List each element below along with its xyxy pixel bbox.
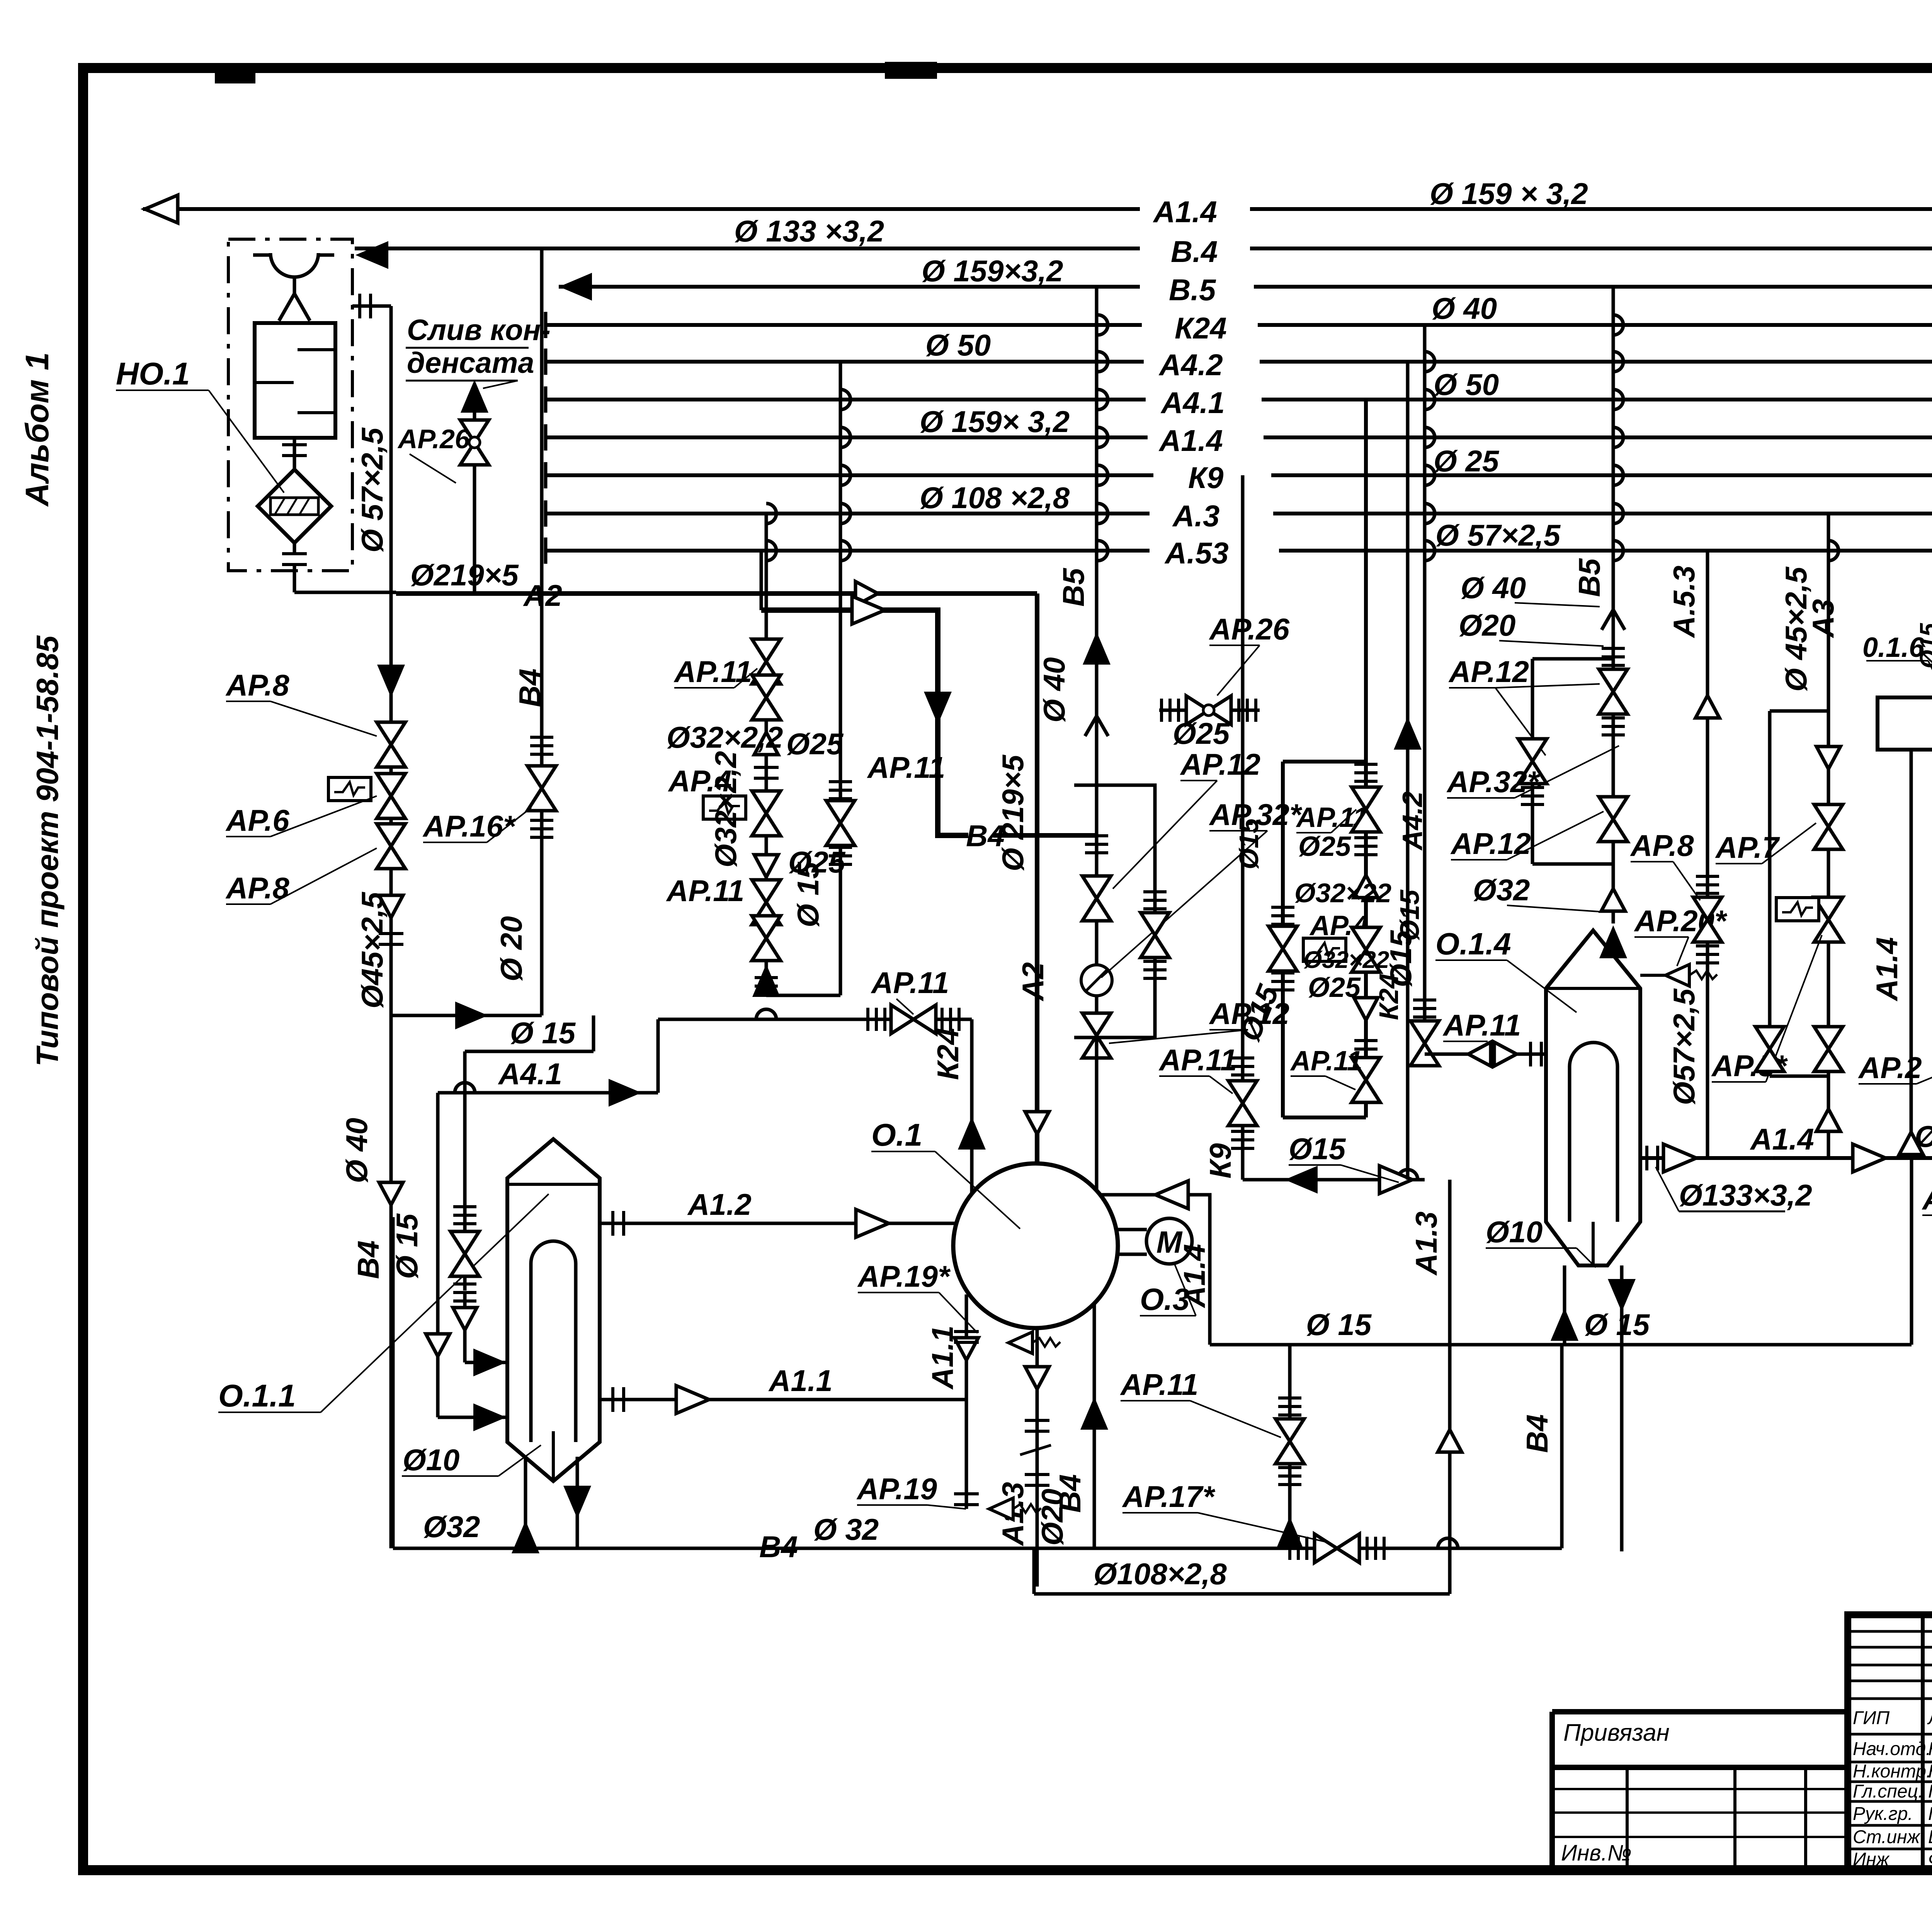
- svg-text:В5: В5: [1572, 558, 1606, 597]
- check valve down on А3 riser: [1816, 747, 1840, 769]
- valve АР.12 lower: [1082, 1013, 1111, 1058]
- wire: [298, 411, 335, 414]
- svg-text:Типовой проект 904-1-58.85: Типовой проект 904-1-58.85: [30, 635, 65, 1066]
- wire bus К24 y=841: [1258, 323, 1932, 327]
- leader line: [406, 380, 518, 382]
- check valve on А.5.3 riser: [1696, 696, 1719, 718]
- valve АР.12 upper block2: [1599, 669, 1628, 714]
- start tick of bus y=1329: [545, 500, 546, 527]
- svg-text:Ø 15: Ø 15: [1584, 1308, 1650, 1342]
- leader АР.8: [270, 701, 377, 736]
- leader line: [1449, 687, 1495, 689]
- leader line: [1289, 1164, 1341, 1166]
- svg-text:Ø 50: Ø 50: [925, 328, 991, 362]
- svg-text:Шась: Шась: [1928, 1827, 1932, 1847]
- arrow into vessel О.1.4: [1600, 927, 1626, 957]
- leader line: [1341, 1165, 1399, 1182]
- wire path: [258, 469, 331, 543]
- wire Ø108×2,8 bottom: [1034, 1592, 1450, 1596]
- open arrow on А1.2: [856, 1209, 889, 1237]
- svg-text:О.1: О.1: [871, 1117, 922, 1153]
- svg-text:К9: К9: [1188, 461, 1224, 495]
- leader line: [1677, 937, 1689, 966]
- wire drop x=4947 to Ф15 line: [1910, 1158, 1913, 1345]
- leader line: [1217, 645, 1260, 696]
- svg-text:ГИП: ГИП: [1853, 1708, 1889, 1728]
- leader line: [423, 842, 487, 843]
- open chevron on В5 riser block2: [1602, 610, 1625, 630]
- wire path: [840, 541, 850, 561]
- wire left riser lower part: [391, 1217, 395, 1548]
- svg-text:Ø25: Ø25: [1173, 716, 1230, 750]
- leader line: [857, 1504, 927, 1506]
- wire: [352, 304, 391, 308]
- valve АР.8 on А.5.3 riser: [1693, 897, 1722, 942]
- svg-text:А1.3: А1.3: [1409, 1211, 1443, 1276]
- arrow up at bottom: [1277, 1519, 1303, 1549]
- svg-text:Ø32×2,2: Ø32×2,2: [667, 720, 783, 754]
- svg-text:Коган: Коган: [1928, 1739, 1932, 1759]
- leader line: [1331, 810, 1356, 833]
- leader line: [1673, 862, 1700, 900]
- arrow up on В5 riser: [1084, 634, 1109, 664]
- open arrow on А1.1: [676, 1386, 709, 1413]
- wire bus А1.4 y=541: [1250, 207, 1932, 211]
- inner tube of О.1.4: [1570, 1043, 1617, 1222]
- leader line: [1140, 1315, 1196, 1316]
- flange: [1085, 836, 1108, 853]
- leader Ø133: [1656, 1167, 1679, 1211]
- wire path: [1074, 785, 1155, 1037]
- wire: [1116, 1228, 1147, 1231]
- svg-text:Ø 50: Ø 50: [1434, 367, 1499, 401]
- svg-text:Ø 219×5: Ø 219×5: [996, 754, 1030, 871]
- wire В5/Ø40/Ø20 riser: [1095, 287, 1099, 1180]
- svg-text:А1.4: А1.4: [1158, 423, 1223, 457]
- valve АР.11 lower pair bottom: [752, 916, 781, 961]
- valve АР.7: [1814, 804, 1843, 849]
- leader line: [1631, 861, 1673, 862]
- check valve on А2 line: [855, 582, 878, 605]
- wire В4 riser to compressor: [1093, 1303, 1096, 1548]
- valve АР.32* on bypass block2: [1518, 739, 1547, 784]
- wire: [576, 1457, 579, 1548]
- wire bus В.5 y=742: [559, 285, 1140, 289]
- svg-text:Ø10: Ø10: [403, 1443, 459, 1477]
- svg-text:А.53: А.53: [1164, 536, 1229, 570]
- leader line: [1447, 797, 1515, 799]
- leader: [1443, 1041, 1488, 1042]
- wire В5 riser block2: [1612, 287, 1615, 923]
- svg-text:Ø 15: Ø 15: [791, 861, 825, 927]
- svg-text:К24: К24: [931, 1028, 965, 1080]
- wire К24 drop to compressor: [970, 1019, 974, 1194]
- flange: [379, 934, 403, 944]
- leader АР.11: [734, 668, 757, 688]
- привязан row y=4691: [1552, 1811, 1848, 1814]
- flange: [453, 1207, 476, 1224]
- svg-text:А3: А3: [1806, 599, 1840, 638]
- arrow up on К24 drop: [959, 1119, 985, 1149]
- jog to А.53 bus: [760, 551, 763, 610]
- valve АР.8 upper: [377, 722, 405, 767]
- wire path: [507, 1183, 600, 1186]
- wire filter outlet down: [293, 565, 296, 592]
- svg-text:АР.23*: АР.23*: [1922, 1182, 1932, 1216]
- wire А2 header Ø219×5: [396, 591, 1037, 596]
- flange: [954, 1494, 979, 1505]
- valve actuator: [1303, 938, 1346, 961]
- leader О.1: [935, 1151, 1020, 1229]
- flange: [1231, 1131, 1254, 1148]
- wire path: [1848, 1615, 1932, 1870]
- svg-text:А1.4: А1.4: [1928, 572, 1932, 636]
- wire Ф15 header y=3053: [1243, 1178, 1425, 1182]
- wire А1.3 riser x=3752: [1448, 1180, 1452, 1594]
- leader line: [1296, 832, 1331, 833]
- svg-text:Григорьян: Григорьян: [1928, 1804, 1932, 1824]
- flange: [1143, 961, 1167, 978]
- open arrow left on А1.4 stub: [1155, 1181, 1188, 1209]
- wire path: [766, 503, 776, 524]
- leader line: [1507, 811, 1604, 860]
- stamp row y=4222: [1848, 1630, 1932, 1633]
- leader line: [226, 701, 270, 702]
- wire path: [1098, 541, 1108, 561]
- flow arrow up on drop x=1983: [753, 966, 779, 996]
- leader АР.12: [1113, 781, 1217, 889]
- compressor О.1: [953, 1163, 1118, 1328]
- svg-text:Ø32×2,2: Ø32×2,2: [709, 751, 743, 867]
- svg-text:Нач.отд.: Нач.отд.: [1853, 1739, 1931, 1759]
- leader line: [116, 389, 209, 391]
- wire bus В.5 y=742: [1254, 285, 1932, 289]
- flange: [1521, 787, 1544, 804]
- start tick of bus y=936: [545, 349, 546, 375]
- wire: [465, 1361, 507, 1364]
- leader line: [1209, 645, 1260, 646]
- wire drop x=3535: [1364, 400, 1368, 1117]
- stamp row y=4611: [1848, 1781, 1932, 1783]
- wire path: [840, 389, 850, 410]
- wire bus А1.4 y=541: [143, 207, 1140, 211]
- svg-text:АР.16*: АР.16*: [422, 809, 516, 843]
- wire path: [1425, 541, 1435, 561]
- leader line: [1209, 830, 1267, 832]
- wire А1.1 riser under compressor: [965, 1294, 968, 1509]
- check valve: [426, 1334, 450, 1356]
- wire А1.4 header y=2997: [1640, 1156, 1932, 1160]
- wire path: [756, 1009, 776, 1019]
- svg-text:Н.контр.: Н.контр.: [1853, 1761, 1931, 1782]
- svg-text:Ø15: Ø15: [1234, 818, 1264, 869]
- leader to drain arrow: [483, 381, 518, 388]
- wire: [463, 1051, 467, 1291]
- leader line: [858, 1292, 939, 1293]
- wire path: [275, 498, 309, 514]
- wire path: [1613, 465, 1623, 485]
- flange: [1231, 1058, 1254, 1075]
- wire jog: [592, 1015, 595, 1051]
- svg-text:АР.11: АР.11: [867, 750, 945, 784]
- wire В4 heavy bypass: [761, 610, 968, 835]
- svg-text:Ø32: Ø32: [423, 1510, 480, 1544]
- svg-text:Инв.№: Инв.№: [1561, 1840, 1632, 1866]
- valve on block2 bypass: [1269, 926, 1297, 971]
- flange: [1271, 973, 1294, 990]
- valve АР.12 on bypass side: [1141, 913, 1169, 957]
- start tick of bus y=1132: [545, 424, 546, 451]
- svg-text:Ø 32: Ø 32: [813, 1512, 879, 1546]
- valve АР.4 with actuator block2: [1352, 927, 1380, 972]
- wire drain riser: [473, 404, 476, 594]
- wire АР.11 drop x=3338: [1288, 1345, 1292, 1548]
- svg-text:А1.4: А1.4: [1153, 195, 1217, 229]
- check valve: [954, 1338, 978, 1360]
- wire: [1116, 1253, 1147, 1256]
- wire А1.3 drain from compressor: [1036, 1328, 1039, 1587]
- wire bus А.3 y=1329: [546, 512, 1150, 515]
- leader line: [1577, 1248, 1596, 1267]
- wire К9 riser x=3216: [1241, 475, 1245, 1180]
- valve АР.11 on К24 drop: [1410, 1021, 1439, 1066]
- wire path: [1546, 930, 1640, 1265]
- leader line: [226, 903, 270, 905]
- leader АР.16*: [487, 808, 531, 842]
- flange: [1602, 648, 1625, 665]
- svg-text:Ст.инж: Ст.инж: [1853, 1827, 1921, 1847]
- wire: [463, 1293, 467, 1362]
- leader line: [1325, 1076, 1355, 1090]
- svg-text:АР.8: АР.8: [225, 668, 289, 702]
- svg-text:В4: В4: [759, 1530, 798, 1564]
- wire: [389, 306, 393, 594]
- svg-text:Ø 40: Ø 40: [1461, 571, 1526, 605]
- arrow down on left riser: [378, 665, 404, 696]
- leader НО.1: [209, 390, 284, 493]
- valve АР.8 lower: [377, 824, 405, 869]
- stamp row y=4488: [1848, 1733, 1932, 1736]
- flange: [1162, 699, 1179, 722]
- svg-text:Ø25: Ø25: [1298, 831, 1351, 862]
- wire А4.1 riser to К24 line: [656, 1019, 660, 1093]
- flange: [1025, 1475, 1049, 1485]
- wire path: [1613, 389, 1623, 410]
- flange: [1278, 1398, 1301, 1415]
- svg-text:В.5: В.5: [1169, 273, 1216, 307]
- svg-text:Ø32×22: Ø32×22: [1303, 947, 1389, 973]
- valve АР.11 horizontal: [891, 1005, 936, 1034]
- leader line: [1209, 1029, 1248, 1031]
- wire А3 riser x=4732: [1827, 514, 1830, 1158]
- arrow up: [1082, 1399, 1107, 1429]
- wire bus А.53 y=1425: [546, 549, 1150, 553]
- leader line: [1507, 905, 1604, 912]
- valve АР.16*: [527, 766, 556, 811]
- flange: [942, 1008, 959, 1031]
- leader line: [1712, 1081, 1766, 1083]
- svg-text:А4.1: А4.1: [498, 1057, 562, 1091]
- привязан column x=4673: [1804, 1767, 1807, 1870]
- wire path: [1425, 465, 1435, 485]
- svg-text:АР.11: АР.11: [1158, 1043, 1237, 1077]
- привязан column x=4211: [1626, 1767, 1629, 1870]
- svg-text:АР.17*: АР.17*: [1122, 1480, 1216, 1514]
- flange: [829, 782, 852, 799]
- leader line: [1451, 859, 1507, 861]
- wire path: [1098, 315, 1108, 335]
- wire АР.26 drain stub: [1159, 709, 1260, 712]
- arrow up condensate drain: [462, 382, 487, 412]
- relief valve АР.19: [989, 1498, 1041, 1520]
- leader line: [406, 347, 529, 349]
- open arrow on А1.4 header: [1663, 1144, 1696, 1172]
- привязан column x=4490: [1733, 1767, 1736, 1870]
- arrow up on left leg: [513, 1522, 538, 1553]
- leader АР.32*: [1101, 831, 1267, 978]
- wire path: [1828, 541, 1838, 561]
- check valve above vessel: [1601, 889, 1625, 911]
- valve АР.11 lower: [1276, 1419, 1304, 1464]
- open arrow on В4 bypass top: [852, 596, 885, 624]
- scan mark top middle: [885, 62, 937, 79]
- flange: [868, 1008, 885, 1031]
- valve АР.17*: [1315, 1534, 1359, 1563]
- wire path: [840, 503, 850, 524]
- svg-text:Ø32: Ø32: [1473, 873, 1530, 907]
- check valve: [754, 732, 778, 755]
- wire А1.3 jog down: [1032, 1548, 1036, 1594]
- leader line: [1716, 863, 1762, 864]
- svg-text:АР.11: АР.11: [871, 966, 949, 1000]
- wire bottom tie 1983-2175: [766, 994, 840, 997]
- svg-text:АР.11: АР.11: [1120, 1367, 1198, 1401]
- svg-text:О.1.4: О.1.4: [1435, 927, 1511, 961]
- flange: [1025, 1420, 1049, 1431]
- svg-text:Инж: Инж: [1853, 1849, 1890, 1870]
- check valve: [1354, 875, 1378, 898]
- flange: [1531, 1042, 1541, 1066]
- leader АР.6: [270, 796, 377, 837]
- svg-text:В4: В4: [351, 1240, 385, 1279]
- check valve down block2: [1354, 998, 1378, 1020]
- svg-text:Ø 20: Ø 20: [494, 916, 528, 981]
- wire К24 drop x=3687: [1423, 325, 1427, 1054]
- svg-text:Ø45×2,5: Ø45×2,5: [355, 891, 389, 1009]
- svg-text:денсата: денсата: [407, 347, 534, 379]
- svg-text:Преснов: Преснов: [1928, 1781, 1932, 1802]
- relief valve АР.20*: [1665, 964, 1717, 986]
- wire left main riser В4/Ø45 x=1012: [389, 594, 393, 1548]
- valve actuator: [328, 777, 371, 801]
- check valve into compressor: [1025, 1112, 1049, 1134]
- flange: [829, 847, 852, 864]
- open arrow chevron on В5 riser: [1085, 716, 1108, 736]
- wire dryer to filter: [293, 438, 296, 469]
- check valve on left riser: [379, 1182, 403, 1205]
- arrow into vessel О.1.1 lower side: [474, 1405, 504, 1430]
- leader АР.8 lower: [270, 848, 377, 904]
- open arrow 2 on А1.4 header: [1853, 1144, 1886, 1172]
- svg-text:Ø 108 ×2,8: Ø 108 ×2,8: [920, 481, 1070, 515]
- leader АР.11 lower: [1190, 1401, 1281, 1437]
- wire path: [1903, 1148, 1923, 1158]
- svg-text:А2: А2: [1016, 962, 1050, 1002]
- wire block2 bypass box: [1283, 762, 1366, 1117]
- flange: [1278, 1468, 1301, 1485]
- valve on А3 bypass: [1755, 1027, 1784, 1071]
- wire path: [1613, 315, 1623, 335]
- arrow up: [1395, 719, 1420, 749]
- wire А1.2: [600, 1222, 956, 1225]
- svg-text:АР.11: АР.11: [1442, 1008, 1521, 1042]
- valve АР.12 upper: [1082, 876, 1111, 921]
- svg-text:Ø 40: Ø 40: [1037, 657, 1071, 723]
- leader line: [1109, 1030, 1248, 1043]
- wire В4 riser to block2 (right leg О.1.4): [1560, 1346, 1564, 1548]
- leader line: [1486, 1247, 1577, 1249]
- flange: [1696, 876, 1719, 893]
- svg-text:Ø 159× 3,2: Ø 159× 3,2: [920, 405, 1070, 439]
- leader line: [1762, 823, 1816, 864]
- привязан row y=4754: [1552, 1836, 1848, 1838]
- wire О.1.6 drop down: [1910, 750, 1913, 1158]
- svg-text:Ø57×2,5: Ø57×2,5: [1667, 988, 1701, 1105]
- wire А1.4 from compressor: [1100, 1195, 1210, 1345]
- svg-text:Ø 133 ×3,2: Ø 133 ×3,2: [734, 214, 884, 248]
- leader line: [1495, 688, 1546, 755]
- stamp row y=4309: [1848, 1664, 1932, 1667]
- svg-text:А4.2: А4.2: [1158, 348, 1223, 382]
- flange: [1367, 1537, 1384, 1560]
- wire path: [1425, 427, 1435, 447]
- svg-text:Ø 159×3,2: Ø 159×3,2: [922, 254, 1063, 288]
- flange: [1239, 699, 1256, 722]
- valve АР.11 (x1983 upper pair bottom): [752, 675, 781, 720]
- wire: [524, 1457, 527, 1548]
- leader АР.2: [1917, 1043, 1932, 1084]
- svg-text:АР.26: АР.26: [397, 424, 470, 454]
- arrow left on Ф15 header: [1287, 1167, 1317, 1192]
- arrow up on О.1.4 left leg: [1552, 1310, 1577, 1340]
- valve actuator: [703, 796, 746, 819]
- stamp row y=4560: [1848, 1761, 1932, 1764]
- wire: [293, 543, 296, 553]
- wire path: [1425, 352, 1435, 372]
- leader line: [1766, 935, 1822, 1082]
- flange: [1602, 718, 1625, 735]
- wire to А2 header: [294, 591, 396, 594]
- flange: [1271, 907, 1294, 924]
- svg-text:Ø 57×2,5: Ø 57×2,5: [1435, 518, 1561, 552]
- flange: [530, 737, 553, 754]
- equipment НО.1 dash-dot enclosure: [228, 239, 352, 571]
- svg-text:Ø 15: Ø 15: [510, 1016, 576, 1050]
- sight glass diagonal: [1086, 969, 1107, 991]
- svg-text:АР.12: АР.12: [1450, 827, 1531, 861]
- wire bus А1.4 y=1132: [1264, 435, 1932, 439]
- svg-text:А.3: А.3: [1172, 499, 1219, 533]
- wire path: [840, 465, 850, 485]
- wire: [255, 381, 294, 384]
- arrow down on О.1.4 right leg: [1609, 1280, 1634, 1310]
- привязан table frame: [1552, 1712, 1848, 1870]
- check valve: [1468, 1042, 1491, 1066]
- wire path: [1098, 427, 1108, 447]
- wire path: [1613, 503, 1623, 524]
- check valve down: [754, 855, 778, 877]
- stamp row y=4263: [1848, 1646, 1932, 1649]
